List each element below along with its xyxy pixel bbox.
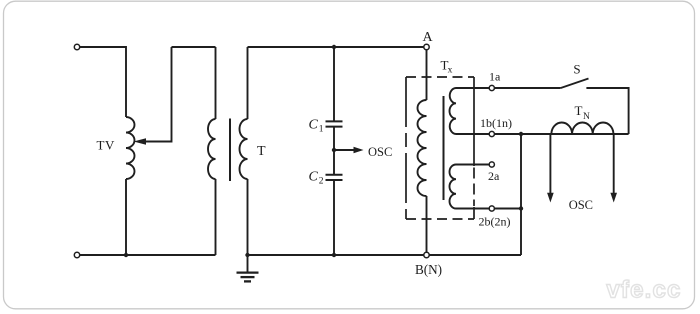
svg-text:OSC: OSC [368, 145, 392, 159]
svg-text:T: T [575, 103, 583, 118]
svg-text:1b(1n): 1b(1n) [480, 116, 512, 130]
svg-text:T: T [257, 144, 266, 159]
svg-text:2b(2n): 2b(2n) [479, 214, 511, 228]
svg-text:1a: 1a [489, 70, 501, 84]
svg-text:A: A [422, 30, 433, 45]
svg-text:2a: 2a [488, 169, 500, 183]
svg-text:B(N): B(N) [415, 262, 442, 277]
svg-text:2: 2 [319, 177, 324, 187]
svg-text:TV: TV [97, 137, 116, 152]
svg-text:C: C [309, 170, 319, 185]
svg-text:x: x [448, 65, 453, 75]
svg-text:OSC: OSC [569, 198, 593, 212]
svg-text:N: N [583, 112, 590, 122]
svg-text:1: 1 [319, 125, 324, 135]
svg-text:vfe.cc: vfe.cc [606, 277, 681, 304]
svg-text:S: S [573, 62, 580, 77]
svg-text:C: C [309, 118, 319, 133]
